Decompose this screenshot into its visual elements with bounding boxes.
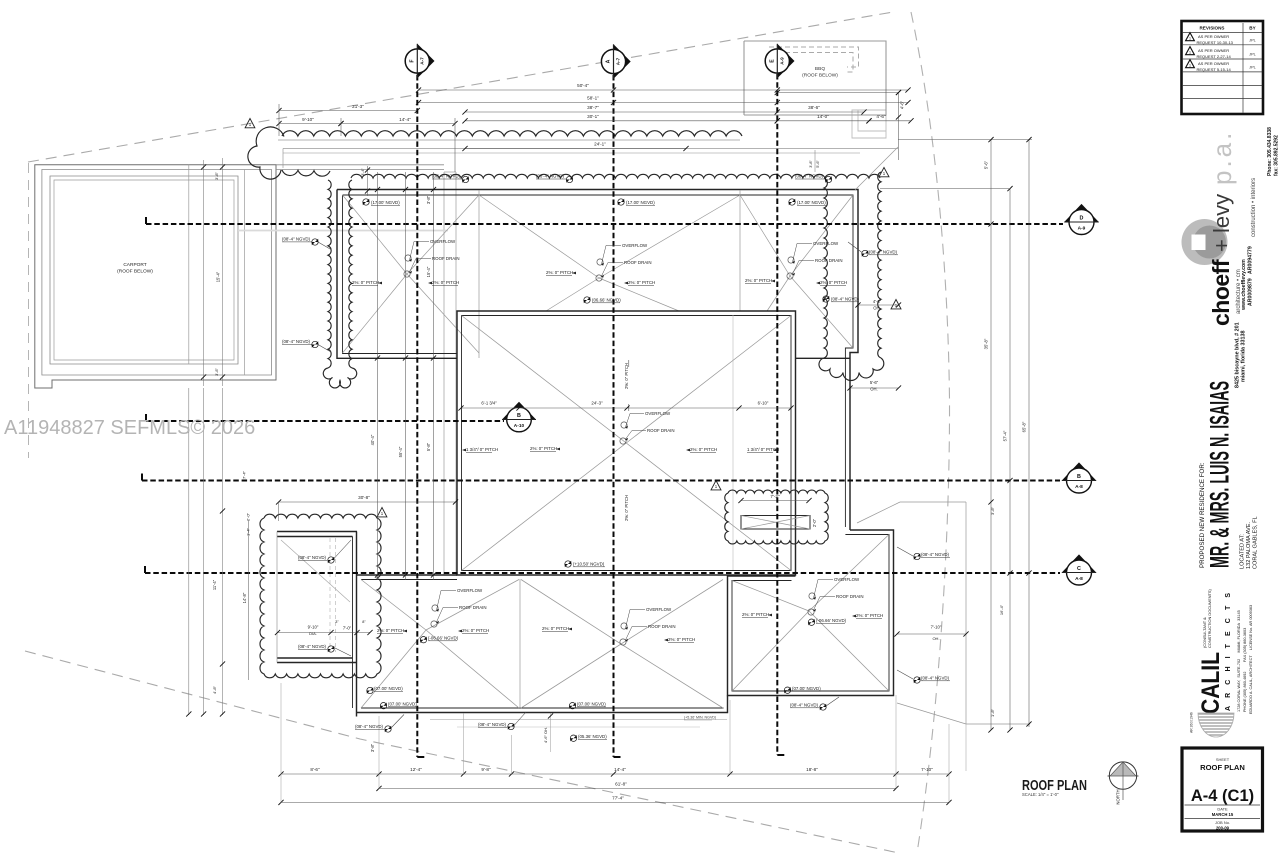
svg-text:55'-4": 55'-4" [398,446,403,457]
grid marker F/A-7 [417,44,434,78]
roof edges under revision cloud [278,139,740,141]
right strip + lower right roof square outer [728,530,894,696]
svg-text:PHONE (305) 860-4692 F: PHONE (305) 860-4692 FAX (305) 860-3603 [1243,628,1247,712]
C-shape upper left interior [277,532,357,663]
svg-text:(+5.36' MIN. NGVD): (+5.36' MIN. NGVD) [684,716,716,720]
svg-text:15'-4": 15'-4" [426,266,431,277]
svg-text:SHEET: SHEET [1216,757,1230,762]
svg-text:7'-10": 7'-10" [921,767,933,772]
grid marker B/A-8 [1062,462,1096,480]
svg-text:ROOF DRAIN: ROOF DRAIN [459,605,487,610]
svg-text:JPL: JPL [1249,52,1257,57]
svg-text:AR 26001946: AR 26001946 [1190,712,1194,733]
svg-text:construction • interiors: construction • interiors [1251,178,1257,237]
svg-text:77'-4": 77'-4" [612,796,624,801]
svg-text:C: C [1077,566,1081,572]
svg-text:B: B [1077,474,1081,480]
svg-text:(ROOF BELOW): (ROOF BELOW) [802,73,838,79]
svg-text:5'-6": 5'-6" [870,380,879,385]
svg-text:9'-10": 9'-10" [302,117,314,122]
drains upper band [405,255,411,261]
svg-text:30'-1": 30'-1" [587,114,599,119]
svg-text:61'-8": 61'-8" [615,782,627,787]
svg-text:6'-10": 6'-10" [758,401,769,406]
svg-text:40'-4": 40'-4" [370,434,375,445]
svg-text:2%: 0" PITCH: 2%: 0" PITCH [624,363,629,389]
svg-text:7'-0": 7'-0" [343,626,352,631]
svg-text:OH.: OH. [870,387,877,392]
square diagonals [732,581,809,612]
revision cloud lower-left box [260,514,381,678]
lower roof overhang outline right [900,501,966,503]
svg-text:200-09: 200-09 [1216,826,1230,831]
svg-text:JOB No.: JOB No. [1215,820,1230,825]
svg-text:www.choefflevy.com: www.choefflevy.com [1241,259,1247,311]
lower roof section divider [519,579,521,708]
drains lower band [432,605,438,611]
svg-text:(07.00' NGVD): (07.00' NGVD) [792,686,821,691]
upper roof outer outline [337,190,457,359]
svg-text:2%: 0" PITCH: 2%: 0" PITCH [377,628,404,633]
svg-text:1'-4": 1'-4" [246,527,251,536]
grid line B-10 horizontal [146,420,504,422]
property line west (left edge vertical) [28,163,30,458]
svg-text:58'-1": 58'-1" [587,96,599,101]
svg-text:2%: 0" PITCH: 2%: 0" PITCH [462,628,489,633]
svg-text:(+10.50' NGVD): (+10.50' NGVD) [573,562,605,567]
svg-text:DATE: DATE [1217,807,1228,812]
svg-text:JPL: JPL [1249,65,1257,70]
svg-text:OVERFLOW: OVERFLOW [622,243,648,248]
svg-text:3'-8": 3'-8" [426,195,431,204]
small rect in cloud [741,516,810,530]
svg-text:3'-8": 3'-8" [990,506,995,515]
bottom extension lines [280,683,282,802]
grid line A vertical [613,75,615,757]
svg-text:4'-6": 4'-6" [900,100,905,109]
svg-text:BY: BY [1249,26,1255,31]
property line south [25,651,899,853]
svg-text:3'-8": 3'-8" [370,743,375,752]
svg-text:4'-6": 4'-6" [876,114,886,119]
svg-text:1: 1 [1189,36,1191,40]
grid line D horizontal [146,223,1063,225]
lower roof diagonals left [361,580,426,631]
svg-text:p.a.: p.a. [1207,130,1237,185]
svg-text:2'-0": 2'-0" [246,512,251,521]
svg-text:A-7: A-7 [419,57,424,65]
svg-text:(08'-4" NGVD): (08'-4" NGVD) [432,174,461,179]
svg-text:A-8: A-8 [1075,484,1083,490]
svg-text:ROOF DRAIN: ROOF DRAIN [432,256,460,261]
svg-text:(08'-4" NGVD): (08'-4" NGVD) [831,297,860,302]
svg-text:2%: 0" PITCH: 2%: 0" PITCH [856,613,883,618]
property line north [28,12,893,162]
06.66 NGVD labels [584,297,590,303]
interior dashed lines [329,538,331,652]
revision cloud top row [282,131,742,136]
svg-text:A: A [606,59,612,63]
top dimensions [419,89,909,91]
svg-text:CORAL GABLES, FL: CORAL GABLES, FL [1253,516,1259,569]
carport / ground roof outline [35,165,276,388]
svg-text:4'-8": 4'-8" [212,685,217,694]
grid line F vertical [416,75,418,757]
svg-text:REQUEST 10-30-13: REQUEST 10-30-13 [1197,40,1234,45]
svg-text:24'-1": 24'-1" [594,142,606,147]
svg-text:1: 1 [1189,50,1191,54]
svg-text:3'-8": 3'-8" [214,368,219,376]
revision cloud left strip [328,180,331,368]
upper roof cricket diagonals right [740,195,790,276]
svg-text:DIA.: DIA. [309,631,317,636]
svg-text:(ROOF BELOW): (ROOF BELOW) [117,269,153,275]
svg-text:(-06.66' NGVD): (-06.66' NGVD) [428,636,459,641]
svg-text:ROOF DRAIN: ROOF DRAIN [836,594,864,599]
svg-text:15'-4": 15'-4" [216,271,221,282]
carport dim lines [203,160,205,386]
svg-text:2%: 0" PITCH: 2%: 0" PITCH [820,280,847,285]
grid line E vertical [776,74,778,755]
svg-text:AS PER OWNER: AS PER OWNER [1198,34,1229,39]
scan ghost line [238,230,448,232]
svg-text:D: D [1080,216,1084,222]
svg-text:ROOF DRAIN: ROOF DRAIN [815,258,843,263]
lower roof diagonals middle [521,580,621,645]
svg-text:3'-8": 3'-8" [809,160,813,168]
svg-text:AR0009879 AR0094779: AR0009879 AR0094779 [1248,246,1254,306]
svg-text:A-9: A-9 [1078,226,1086,232]
svg-text:2%: 0" PITCH: 2%: 0" PITCH [530,446,557,451]
svg-text:B: B [517,413,521,419]
svg-text:(08'-4" NGVD): (08'-4" NGVD) [536,174,565,179]
svg-text:2%: 0" PITCH: 2%: 0" PITCH [432,280,459,285]
grid line C horizontal [145,572,1060,574]
lower roof inner [353,537,724,709]
svg-text:OVERFLOW: OVERFLOW [645,411,671,416]
svg-text:BBQ: BBQ [815,66,825,72]
svg-text:1 3/4"/ 0" PITCH: 1 3/4"/ 0" PITCH [466,447,498,452]
svg-text:SCALE: 1/4" = 1'-0": SCALE: 1/4" = 1'-0" [1022,792,1059,797]
carport inner box [50,176,238,364]
BBQ dashed hook [769,47,859,67]
svg-text:14'-4": 14'-4" [614,767,626,772]
svg-text:(17.00' NGVD): (17.00' NGVD) [797,200,826,205]
center roof inner [462,316,792,571]
svg-text:2'-0": 2'-0" [812,518,817,527]
svg-text:JPL: JPL [1249,38,1257,43]
svg-text:2%: 0" PITCH: 2%: 0" PITCH [690,447,717,452]
svg-text:(17.00' NGVD): (17.00' NGVD) [626,200,655,205]
svg-text:OVERFLOW: OVERFLOW [457,588,483,593]
svg-text:E: E [769,59,775,63]
svg-text:38'-6": 38'-6" [808,105,820,110]
svg-text:(08'-4" NGVD): (08'-4" NGVD) [282,237,311,242]
carport interior lines [188,165,190,364]
svg-text:2%: 0" PITCH: 2%: 0" PITCH [628,280,655,285]
north arrow [1109,762,1136,789]
svg-text:7'-2": 7'-2" [770,494,780,499]
svg-text:REVISIONS: REVISIONS [1199,26,1224,31]
svg-text:2%: 0" PITCH: 2%: 0" PITCH [668,637,695,642]
svg-text:OVERFLOW: OVERFLOW [813,241,839,246]
svg-text:Phone: 305.434.8338: Phone: 305.434.8338 [1267,127,1273,176]
svg-text:16'-4": 16'-4" [999,604,1004,615]
revision cloud right strip [824,178,827,358]
hip to bbq corner [855,147,898,190]
svg-text:(08'-4" NGVD): (08'-4" NGVD) [869,250,898,255]
svg-text:(08'-4" NGVD): (08'-4" NGVD) [790,703,819,708]
svg-text:2%: 0" PITCH: 2%: 0" PITCH [624,495,629,521]
svg-text:35'-8": 35'-8" [984,338,989,349]
BBQ roof below box [744,41,886,115]
svg-text:(06.66' NGVD): (06.66' NGVD) [592,298,621,303]
drains center roof [621,422,627,428]
svg-text:(07.00' NGVD): (07.00' NGVD) [388,702,417,707]
svg-text:(08'-4" NGVD): (08'-4" NGVD) [921,552,950,557]
detail marker B/A-10 [502,402,536,420]
svg-text:132 PALOMA AVE.: 132 PALOMA AVE. [1246,522,1252,569]
upper roof cricket diagonals left [343,195,408,274]
choeff levy logo [1182,219,1228,265]
svg-text:MR. & MRS. LUIS N. ISAIAS: MR. & MRS. LUIS N. ISAIAS [1205,381,1235,568]
svg-text:1: 1 [1189,63,1191,67]
left vertical dimensions [188,388,190,715]
svg-text:OVERFLOW: OVERFLOW [646,607,672,612]
svg-text:AS PER OWNER: AS PER OWNER [1198,48,1229,53]
svg-text:7'-4": 7'-4" [242,470,247,479]
svg-text:OH.: OH. [873,306,880,311]
svg-text:F: F [409,59,415,62]
svg-text:2%: 0" PITCH: 2%: 0" PITCH [546,270,573,275]
svg-text:1 3/4"/ 0" PITCH: 1 3/4"/ 0" PITCH [747,447,779,452]
svg-text:(08'-4" NGVD): (08'-4" NGVD) [298,555,327,560]
svg-text:EDUARDO A. CALIL, ARCHITECT: EDUARDO A. CALIL, ARCHITECT LICENSE No. … [1249,605,1253,714]
svg-text:2%: 0" PITCH: 2%: 0" PITCH [542,626,569,631]
revisions table [1182,21,1264,114]
grid marker E/A-9 [777,44,794,78]
bbq counter gray shape [852,110,886,138]
svg-text:LOCATED AT:: LOCATED AT: [1240,534,1246,569]
svg-text:2%: 0" PITCH: 2%: 0" PITCH [742,612,769,617]
svg-text:57'-4": 57'-4" [1003,430,1008,441]
sheet box [1182,748,1263,831]
grid line B horizontal [142,480,1060,482]
30-8 dim [279,501,456,503]
svg-text:A-4 (C1): A-4 (C1) [1191,787,1254,805]
svg-text:4'-6": 4'-6" [873,299,882,304]
lower level wall lines [443,172,445,575]
svg-text:3'-8": 3'-8" [214,172,219,180]
svg-text:(-06.66' NGVD): (-06.66' NGVD) [816,618,847,623]
revision cloud second row [351,174,880,178]
svg-text:4'-6" OH.: 4'-6" OH. [543,727,548,743]
svg-text:choeff: choeff [1208,259,1234,326]
svg-text:5'-6": 5'-6" [984,160,989,169]
mid vertical dimensions [377,172,379,580]
svg-text:(08'-4" NGVD): (08'-4" NGVD) [478,722,507,727]
center roof dimensions [461,407,791,409]
svg-text:9'-10": 9'-10" [308,625,319,630]
svg-text:ROOF PLAN: ROOF PLAN [1200,763,1245,772]
svg-text:NORTH: NORTH [1116,789,1121,804]
upper roof cricket diagonals middle [479,195,599,278]
lower roof outer [357,532,728,717]
svg-text:11'-4": 11'-4" [212,579,217,590]
bottom dimension rows [281,773,949,775]
svg-text:ROOF DRAIN: ROOF DRAIN [624,260,652,265]
svg-text:A-7: A-7 [616,57,621,65]
svg-text:(08'-4" NGVD): (08'-4" NGVD) [921,676,950,681]
svg-text:REQUEST 5-15-14: REQUEST 5-15-14 [1197,67,1232,72]
svg-text:12'-4": 12'-4" [410,767,422,772]
lower right roof inner [732,535,889,692]
svg-text:65'-8": 65'-8" [1022,421,1027,432]
svg-text:(08'-4" NGVD): (08'-4" NGVD) [795,174,824,179]
svg-text:A-9: A-9 [779,57,784,65]
NGVD elevation labels upper band [363,199,369,205]
svg-text:MARCH 15: MARCH 15 [1212,812,1234,817]
svg-text:14'-0": 14'-0" [817,114,829,119]
roof edge lines between carport and house [276,164,444,166]
svg-text:2%: 0" PITCH: 2%: 0" PITCH [352,280,379,285]
svg-text:24'-3": 24'-3" [591,401,603,406]
interior hip line in C rect [281,540,350,602]
revision triangles [245,119,255,128]
svg-text:(17.00' NGVD): (17.00' NGVD) [371,200,400,205]
svg-text:5'-6": 5'-6" [816,160,820,168]
svg-text:1'-8": 1'-8" [990,708,995,717]
svg-text:A-8: A-8 [1075,576,1083,582]
svg-text:OVERFLOW: OVERFLOW [430,239,456,244]
svg-text:(08'-4" NGVD): (08'-4" NGVD) [282,339,311,344]
svg-text:7'-10": 7'-10" [931,625,942,630]
svg-text:38'-7": 38'-7" [587,105,599,110]
grid marker C/A-8 [1062,554,1096,572]
svg-text:14'-4": 14'-4" [399,117,411,122]
svg-text:1728 CORAL WAY, SUITE-702: 1728 CORAL WAY, SUITE-702 MIAMI, FLORIDA… [1237,610,1241,712]
svg-text:21'-3": 21'-3" [352,104,364,109]
section divider [478,190,480,358]
svg-text:9'-8": 9'-8" [481,767,491,772]
svg-text:50'-4": 50'-4" [577,83,589,88]
svg-text:fax: 305.892.5292: fax: 305.892.5292 [1274,135,1280,176]
cloud left end blob [248,127,284,179]
svg-text:ROOF DRAIN: ROOF DRAIN [648,624,676,629]
svg-text:CALIL: CALIL [1197,652,1225,714]
svg-text:AS PER OWNER: AS PER OWNER [1198,61,1229,66]
svg-text:2%: 0" PITCH: 2%: 0" PITCH [745,278,772,283]
revision cloud small box [725,490,828,544]
svg-text:6'-1 3/4": 6'-1 3/4" [481,401,497,406]
svg-text:(08'-4" NGVD): (08'-4" NGVD) [355,724,384,729]
svg-text:REQUEST 2-27-14: REQUEST 2-27-14 [1197,54,1232,59]
svg-text:(08'-4" NGVD): (08'-4" NGVD) [298,644,327,649]
lines below lower band [430,719,727,721]
svg-text:CARPORT: CARPORT [123,262,146,268]
svg-text:3'-4": 3'-4" [361,168,365,176]
svg-text:30'-8": 30'-8" [358,495,370,500]
svg-text:18'-8": 18'-8" [806,767,818,772]
upper roof inner outline [343,195,458,354]
svg-text:+ levy: + levy [1209,194,1234,252]
center roof outer [457,311,796,575]
svg-text:A-10: A-10 [514,423,525,429]
grid marker D/A-9 [1064,204,1099,222]
svg-text:OH.: OH. [932,636,939,641]
svg-text:(07.00' NGVD): (07.00' NGVD) [577,702,606,707]
svg-text:OVERFLOW: OVERFLOW [834,577,860,582]
svg-text:8'-6": 8'-6" [310,767,320,772]
svg-text:miami, florida 33138: miami, florida 33138 [1241,330,1247,382]
svg-text:ROOF DRAIN: ROOF DRAIN [647,428,675,433]
svg-text:14'-8": 14'-8" [242,592,247,603]
svg-text:(05.36' NGVD): (05.36' NGVD) [578,734,607,739]
svg-text:5'-8": 5'-8" [426,442,431,451]
grid marker A/A-7 [614,44,631,78]
svg-text:A11948827 SEFMLS© 2026: A11948827 SEFMLS© 2026 [4,417,255,439]
svg-text:CONSTRUCTION DOCUMENTS): CONSTRUCTION DOCUMENTS) [1207,589,1212,648]
center roof ngvd [565,561,571,567]
center roof diagonals [462,316,792,571]
svg-text:(07.00' NGVD): (07.00' NGVD) [374,686,403,691]
property curve east [911,12,950,853]
